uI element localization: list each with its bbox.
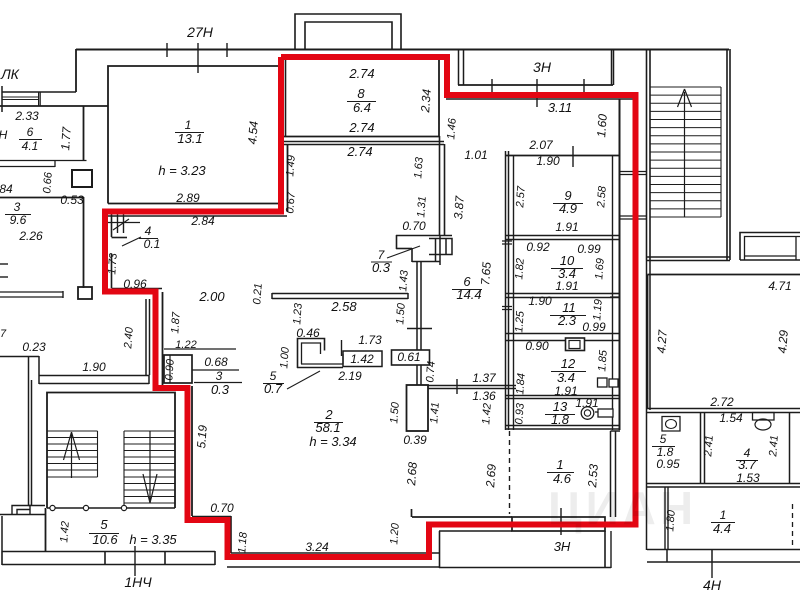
room11 underline — [550, 315, 586, 317]
stair column dot 3 — [121, 505, 126, 510]
svg-text:1.00: 1.00 — [278, 346, 292, 369]
bigroom bottom double — [646, 409, 800, 413]
svg-text:2.41: 2.41 — [767, 435, 781, 458]
rooms col inner right wall — [612, 155, 614, 430]
svg-text:2.41: 2.41 — [702, 435, 716, 458]
svg-text:2.74: 2.74 — [348, 120, 374, 135]
svg-text:1.77: 1.77 — [58, 125, 74, 151]
svg-text:1.01: 1.01 — [464, 148, 487, 162]
svg-text:0.23: 0.23 — [22, 340, 46, 354]
room1 underline — [175, 132, 204, 134]
svg-text:2.26: 2.26 — [18, 229, 43, 243]
svg-text:4Н: 4Н — [703, 577, 722, 593]
window W3 (double) — [0, 292, 63, 297]
svg-text:0.70: 0.70 — [210, 501, 234, 515]
svg-text:2.19: 2.19 — [337, 369, 362, 383]
wall under red below room1 — [108, 215, 287, 217]
room3 box — [164, 355, 192, 383]
room13 underline — [545, 414, 575, 416]
tick room9 top — [572, 146, 574, 167]
room1-4.6 underline — [547, 472, 574, 474]
svg-text:4.6: 4.6 — [553, 471, 572, 486]
stairs up arrow — [64, 432, 80, 478]
svg-text:1.91: 1.91 — [575, 396, 598, 410]
tick 3H center long — [536, 79, 538, 107]
svg-text:1.23: 1.23 — [291, 302, 305, 325]
wall x192 vertical — [191, 386, 193, 516]
svg-text:14.4: 14.4 — [456, 287, 481, 302]
svg-text:3: 3 — [14, 200, 21, 214]
svg-text:0.1: 0.1 — [144, 237, 161, 251]
room12 vent box — [566, 338, 585, 351]
terrace right edge — [604, 531, 606, 568]
rooms col inner left wall — [513, 155, 515, 430]
svg-text:1.90: 1.90 — [536, 154, 560, 168]
room4S underline — [139, 238, 158, 240]
window W2 (double) — [0, 161, 87, 168]
wall top outer — [76, 49, 729, 51]
bigroom right box — [648, 275, 800, 410]
wall room6 bottom — [0, 197, 84, 199]
svg-text:1.90: 1.90 — [528, 294, 552, 308]
svg-text:ЛК: ЛК — [0, 66, 20, 82]
closet5 underline — [263, 383, 284, 385]
terrace edge left — [439, 531, 441, 568]
room4 wall left — [111, 214, 113, 237]
shaft box 0.39 — [407, 385, 429, 431]
svg-text:0.96: 0.96 — [123, 277, 147, 291]
rooms col door stub y242 — [502, 241, 512, 244]
svg-text:13.1: 13.1 — [177, 131, 202, 146]
room3 inner line — [169, 355, 171, 383]
svg-text:1.50: 1.50 — [388, 401, 402, 424]
room7 leader line — [387, 246, 420, 258]
svg-text:2.74: 2.74 — [348, 66, 374, 81]
svg-text:3Н: 3Н — [554, 539, 571, 554]
wall room6 right upper — [83, 106, 85, 161]
wall x162 below red corner — [162, 292, 164, 385]
svg-text:1.87: 1.87 — [169, 311, 183, 334]
svg-text:1.22: 1.22 — [175, 339, 196, 351]
shaft box upper — [72, 170, 92, 187]
svg-text:1.42: 1.42 — [480, 403, 493, 425]
rooms col outer right wall — [619, 99, 621, 430]
svg-text:3.87: 3.87 — [451, 194, 467, 220]
terrace bottom — [439, 567, 611, 569]
room10-11 divider — [506, 294, 620, 298]
wall step x231 — [230, 516, 232, 553]
rooms col door stub y308 — [502, 307, 512, 310]
staircase TR tread edge — [720, 87, 722, 217]
wall x145-149 double — [146, 299, 150, 375]
tick 27H right — [226, 43, 228, 57]
stairwell bottom line with columns — [47, 507, 175, 509]
svg-text:1.46: 1.46 — [445, 117, 459, 140]
room12-13 divider — [506, 396, 620, 399]
room5br toilet inner — [666, 420, 677, 429]
room3 dim line 0.68 — [192, 369, 239, 371]
svg-text:1.73: 1.73 — [358, 333, 382, 347]
svg-text:1НЧ: 1НЧ — [124, 574, 152, 590]
stub right wall y217 — [620, 216, 647, 219]
elevator box inner — [745, 236, 800, 260]
vestibule jamb left double — [459, 50, 464, 85]
room9 underline — [553, 203, 583, 205]
room12 underline — [551, 371, 586, 373]
window W1 end tick — [1, 86, 3, 112]
room4 bottom wall — [112, 237, 128, 239]
closet 1.42 box — [343, 351, 382, 367]
svg-text:h = 3.35: h = 3.35 — [129, 532, 177, 547]
svg-text:1.60: 1.60 — [594, 113, 610, 138]
svg-text:2.69: 2.69 — [483, 463, 499, 489]
svg-text:0.3: 0.3 — [372, 260, 391, 275]
tick on y386 wall — [456, 379, 458, 394]
svg-text:0.39: 0.39 — [403, 433, 427, 447]
svg-text:2.57: 2.57 — [514, 185, 528, 209]
wall y295 double — [272, 293, 408, 299]
left edge wall stub b — [0, 276, 8, 278]
room8 left wall black — [285, 58, 287, 137]
svg-text:0.68: 0.68 — [204, 355, 228, 369]
closet inner — [301, 343, 343, 364]
svg-text:58.1: 58.1 — [315, 420, 340, 435]
svg-text:1.18: 1.18 — [236, 531, 250, 554]
room2 underline — [314, 422, 343, 424]
room4br toilet tank — [753, 413, 775, 421]
svg-text:0.21: 0.21 — [251, 283, 264, 305]
room12 sink — [598, 378, 619, 387]
svg-text:1.84: 1.84 — [514, 373, 527, 395]
stairs lower flight edge — [123, 431, 125, 506]
stair column dot 2 — [83, 505, 88, 510]
stairs down arrow — [143, 431, 157, 503]
svg-text:2.74: 2.74 — [346, 144, 372, 159]
wall x417-421 lower — [417, 365, 421, 385]
room7 top wall — [396, 235, 452, 237]
vestibule jamb right double — [612, 50, 614, 85]
svg-text:4.54: 4.54 — [245, 120, 261, 145]
room7 bottom wall — [412, 261, 440, 263]
stairs upper flight edge — [97, 431, 99, 477]
svg-text:1.42: 1.42 — [58, 521, 71, 543]
svg-text:2.58: 2.58 — [330, 299, 357, 314]
svg-text:2.58: 2.58 — [595, 185, 609, 209]
svg-text:4.9: 4.9 — [559, 201, 577, 216]
entry steps — [0, 506, 45, 515]
svg-text:1: 1 — [720, 508, 727, 522]
svg-text:4.1: 4.1 — [22, 139, 39, 153]
svg-text:1.36: 1.36 — [472, 389, 496, 403]
window W1 sill wall — [0, 105, 108, 107]
svg-text:1.73: 1.73 — [106, 252, 120, 275]
svg-text:0.66: 0.66 — [41, 171, 55, 194]
svg-text:h = 3.34: h = 3.34 — [309, 434, 356, 449]
dashed line bottom right — [792, 504, 794, 549]
balcony inner — [305, 22, 392, 49]
wall y288 horizontal — [112, 288, 163, 290]
room6L underline — [19, 139, 42, 141]
svg-text:1.8: 1.8 — [551, 412, 570, 427]
rooms54 divider double — [701, 413, 705, 484]
svg-text:h = 3.23: h = 3.23 — [158, 163, 206, 178]
wall top-left corner vertical — [75, 49, 77, 92]
svg-text:0.90: 0.90 — [163, 358, 177, 381]
svg-text:1: 1 — [185, 118, 192, 132]
wall left edge lower — [2, 380, 45, 551]
stub right wall y172 — [620, 172, 647, 175]
room8 underline — [347, 101, 376, 103]
room7 left wall — [396, 235, 398, 249]
svg-text:3.7: 3.7 — [738, 457, 757, 472]
room3 dim line under 3 — [194, 382, 242, 384]
svg-text:1.82: 1.82 — [513, 258, 526, 280]
svg-text:2.3: 2.3 — [557, 313, 577, 328]
room1-4.6 bottom box — [512, 517, 605, 531]
svg-text:0.90: 0.90 — [525, 339, 549, 353]
room13 square fixture — [595, 409, 613, 417]
svg-text:4: 4 — [145, 224, 152, 238]
svg-text:5: 5 — [660, 432, 667, 446]
svg-text:0.3: 0.3 — [211, 382, 230, 397]
room9 top wall — [506, 155, 620, 157]
svg-text:0.53: 0.53 — [60, 193, 84, 207]
room7 inner step v — [411, 248, 413, 262]
svg-text:1.91: 1.91 — [555, 279, 578, 293]
stairs upper flight treads — [47, 431, 98, 477]
room9-10 divider — [506, 236, 620, 240]
svg-text:27Н: 27Н — [186, 24, 214, 40]
room7 inner step h — [396, 248, 412, 250]
room1 box — [108, 66, 281, 204]
svg-text:1.20: 1.20 — [388, 522, 402, 545]
room7 niche box — [429, 239, 452, 255]
svg-text:2.00: 2.00 — [198, 289, 225, 304]
svg-text:0.95: 0.95 — [656, 457, 680, 471]
svg-text:12: 12 — [561, 356, 576, 371]
svg-text:2.33: 2.33 — [14, 109, 39, 123]
stub right wall y295 — [610, 294, 620, 298]
rooms col outer left wall — [506, 151, 509, 430]
room7 underline — [371, 261, 392, 263]
tick 3H bottom long — [560, 508, 562, 535]
svg-text:2.84: 2.84 — [190, 214, 215, 228]
window W3 end cap — [62, 291, 64, 298]
svg-text:1.42: 1.42 — [350, 352, 374, 366]
svg-text:0.74: 0.74 — [424, 361, 437, 383]
svg-text:1.31: 1.31 — [415, 196, 428, 218]
room3L underline — [5, 214, 31, 216]
vestibule wall y85 — [458, 84, 613, 86]
bottom band left block — [2, 551, 215, 565]
stairwell outer box — [47, 393, 175, 509]
wall 0.23 left — [0, 356, 39, 380]
room10 underline — [551, 268, 583, 270]
room1-4.6 dashed left edge — [509, 431, 511, 514]
bottom band right block — [647, 549, 800, 562]
svg-text:5: 5 — [100, 517, 108, 532]
svg-text:0.46: 0.46 — [296, 326, 320, 340]
svg-text:6: 6 — [27, 125, 34, 139]
room4 door jamb lines — [118, 214, 124, 233]
room1-4.4 underline — [711, 522, 735, 524]
staircase TR up arrow — [678, 89, 692, 217]
room4 right wall — [789, 413, 791, 484]
svg-text:2.34: 2.34 — [418, 88, 434, 114]
room1-4.4 left wall — [665, 487, 668, 550]
svg-text:1: 1 — [556, 457, 563, 472]
bottom band middle — [227, 553, 440, 567]
svg-text:4.29: 4.29 — [775, 329, 791, 354]
tick on x419 wall — [407, 328, 432, 330]
room6 underline — [452, 289, 482, 291]
room5 left wall — [45, 508, 47, 551]
tick near 0.46 — [341, 340, 343, 356]
room4br underline — [736, 460, 758, 462]
svg-text:1.54: 1.54 — [719, 411, 743, 425]
room7 right wall double — [436, 235, 441, 265]
svg-text:1.41: 1.41 — [428, 402, 441, 424]
tick 27H center long — [197, 43, 199, 73]
wall room6 right lower — [83, 197, 85, 288]
svg-text:0.99: 0.99 — [582, 320, 606, 334]
shaft box small left — [78, 287, 92, 299]
room13 basin outer — [581, 407, 594, 420]
wall x111 lower segment — [111, 254, 113, 288]
red unit boundary outline — [105, 57, 636, 557]
svg-text:4.71: 4.71 — [768, 279, 791, 293]
svg-text:0.93: 0.93 — [513, 402, 527, 425]
room4br toilet bowl — [755, 419, 771, 430]
room4 leader — [122, 237, 141, 246]
svg-text:0.92: 0.92 — [526, 240, 550, 254]
box 0.61 — [392, 350, 430, 365]
left edge wall stub a — [0, 263, 8, 265]
svg-text:1.80: 1.80 — [664, 509, 678, 532]
svg-text:1.91: 1.91 — [554, 384, 577, 398]
svg-text:2.07: 2.07 — [528, 138, 554, 152]
svg-text:2.72: 2.72 — [709, 395, 734, 409]
stair column dot 1 — [50, 505, 55, 510]
tick 3H wall left — [491, 79, 493, 92]
room2 top wall — [284, 142, 444, 145]
room13 bottom wall — [506, 426, 620, 430]
svg-text:3Н: 3Н — [533, 59, 552, 75]
wall under red y99 — [446, 98, 634, 100]
svg-text:0.67: 0.67 — [284, 191, 298, 214]
staircase TR left wall double — [647, 49, 651, 260]
svg-text:1.43: 1.43 — [397, 269, 411, 292]
room8 bottom wall — [284, 136, 439, 138]
svg-text:Н: Н — [0, 128, 8, 142]
closet leader line — [287, 371, 320, 389]
rooms54 bottom double — [646, 484, 800, 488]
wall x611 lower — [610, 531, 612, 568]
wall x439-444 vertical double — [440, 136, 445, 235]
svg-text:5.19: 5.19 — [194, 424, 210, 449]
svg-text:3.24: 3.24 — [305, 540, 329, 554]
svg-text:6.4: 6.4 — [353, 100, 371, 115]
room13 basin inner — [584, 410, 590, 416]
room11-12 divider — [506, 334, 620, 341]
svg-text:4.4: 4.4 — [713, 521, 731, 536]
svg-text:1.37: 1.37 — [472, 371, 497, 385]
balcony outer — [295, 14, 401, 49]
svg-text:2.89: 2.89 — [175, 191, 200, 205]
svg-text:0.70: 0.70 — [402, 219, 426, 233]
room5 underline — [89, 533, 119, 535]
svg-text:1.49: 1.49 — [284, 155, 297, 177]
svg-text:3: 3 — [216, 369, 223, 383]
bottom wall y517 left part — [412, 509, 513, 517]
room8 right wall — [438, 60, 440, 137]
tick 3H wall right — [583, 79, 585, 92]
room2 left wall upper — [287, 144, 289, 212]
room1-4.6 right wall — [611, 431, 621, 517]
corridor wall x647 lower — [647, 260, 651, 550]
tick 27H left — [166, 43, 168, 57]
svg-text:9.6: 9.6 — [10, 213, 27, 227]
room12 vent box inner — [569, 341, 580, 349]
staircase TR bottom double — [646, 257, 730, 261]
room4 door cross — [108, 219, 140, 230]
closet outer — [297, 339, 343, 369]
svg-text:3.4: 3.4 — [557, 370, 575, 385]
svg-text:0.61: 0.61 — [397, 350, 420, 364]
svg-text:2.53: 2.53 — [585, 463, 601, 489]
room5br toilet — [662, 417, 680, 432]
wall step y516 — [192, 516, 231, 518]
window W1 glazing — [3, 97, 39, 100]
svg-text:0.7: 0.7 — [264, 381, 283, 396]
svg-text:8: 8 — [357, 86, 365, 101]
svg-text:1.69: 1.69 — [593, 258, 606, 280]
wall x417-421 vertical double — [417, 262, 421, 350]
svg-text:1.91: 1.91 — [555, 220, 578, 234]
svg-text:10.6: 10.6 — [92, 532, 118, 547]
svg-text:1.25: 1.25 — [513, 310, 527, 333]
svg-text:2.40: 2.40 — [122, 326, 136, 350]
staircase TR treads — [650, 87, 721, 217]
svg-text:84: 84 — [0, 182, 13, 196]
room5br underline — [652, 446, 675, 448]
svg-text:1.63: 1.63 — [412, 156, 426, 179]
svg-text:1.19: 1.19 — [591, 299, 604, 321]
dim line under 1.22 — [164, 348, 236, 350]
svg-text:0.99: 0.99 — [577, 242, 601, 256]
svg-text:1.90: 1.90 — [82, 360, 106, 374]
terrace top line — [439, 530, 512, 532]
svg-text:7.65: 7.65 — [478, 261, 494, 286]
window W1 jamb — [39, 92, 41, 106]
wall top-left step — [2, 91, 76, 93]
stairs lower flight treads — [124, 431, 175, 503]
tick 4H — [711, 562, 713, 578]
svg-text:1.85: 1.85 — [596, 349, 610, 372]
wall y386 right of shaft — [428, 386, 516, 389]
staircase TR right wall double — [727, 49, 730, 260]
svg-text:3.11: 3.11 — [548, 100, 572, 115]
svg-text:7: 7 — [0, 328, 7, 340]
tick 1NCH — [134, 546, 136, 576]
elevator box outer — [740, 233, 800, 261]
svg-text:4.27: 4.27 — [654, 328, 670, 354]
svg-text:2.68: 2.68 — [404, 461, 420, 487]
counter 1.90 double wall — [39, 375, 149, 384]
svg-text:1.53: 1.53 — [736, 471, 760, 485]
svg-text:1.50: 1.50 — [394, 302, 408, 325]
